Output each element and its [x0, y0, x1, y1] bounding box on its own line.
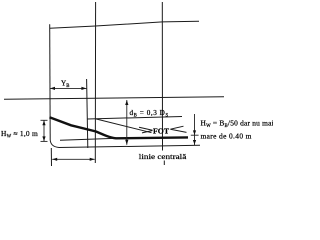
svg-text:FOT: FOT [153, 127, 170, 136]
bottom baseline [59, 145, 200, 147]
diagonal tank line [96, 119, 152, 133]
centerline vertical [161, 2, 163, 151]
upper tank line [88, 117, 183, 120]
FOT break wedge right upper [170, 126, 183, 129]
deck sheer line [50, 21, 199, 28]
svg-text:HW ≈ 1,0 m: HW ≈ 1,0 m [1, 129, 38, 140]
longitudinal bulkhead Y_B (inner) [87, 79, 88, 148]
side shell dimension extension [50, 148, 52, 166]
svg-text:linie centrală: linie centrală [139, 152, 187, 161]
waterline [4, 97, 224, 99]
H_B dimension arrow [191, 114, 199, 145]
bottom shell line [60, 138, 129, 141]
bilge curve [50, 140, 59, 148]
hopper bottom thick line [50, 117, 189, 138]
FOT break wedge left upper [139, 127, 153, 130]
svg-text:mare de 0.40 m: mare de 0.40 m [201, 131, 252, 140]
centerline bottom tick [163, 161, 165, 166]
bottom breadth dimension arrow [52, 158, 94, 161]
FOT break wedge left lower [142, 131, 153, 133]
d_b dimension arrow [125, 100, 128, 145]
FOT break wedge right lower [170, 129, 186, 132]
Y_B dimension arrow [50, 87, 86, 90]
side shell vertical [49, 24, 52, 140]
H_W dimension arrow [41, 120, 48, 141]
longitudinal bulkhead vertical [94, 2, 96, 163]
svg-text:HW = BB/50 dar nu mai: HW = BB/50 dar nu mai [201, 119, 274, 130]
